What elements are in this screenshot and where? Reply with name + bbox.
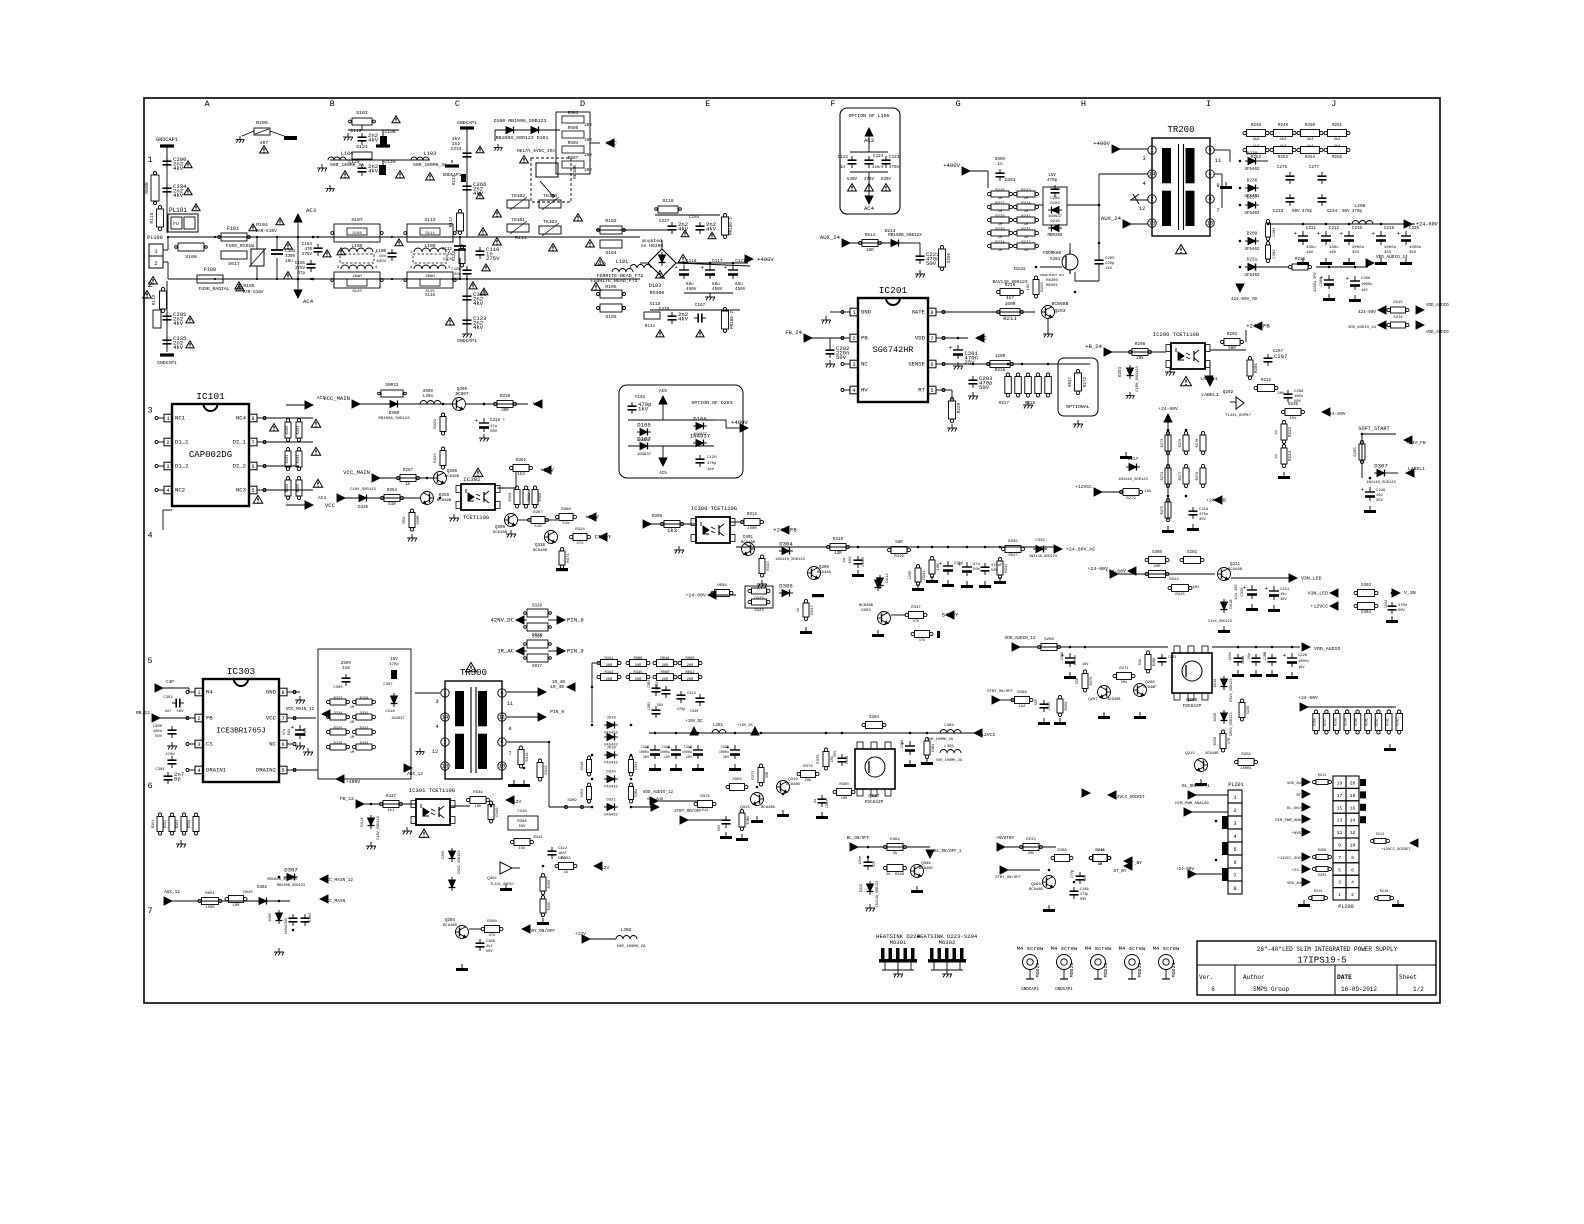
svg-text:+400V: +400V bbox=[757, 256, 774, 263]
svg-text:1u: 1u bbox=[843, 558, 847, 563]
svg-text:+24V_FB: +24V_FB bbox=[773, 527, 797, 534]
svg-text:1M: 1M bbox=[998, 236, 1003, 240]
svg-text:20R: 20R bbox=[687, 664, 694, 668]
svg-text:R226: R226 bbox=[995, 189, 1005, 193]
svg-text:C210: C210 bbox=[1352, 227, 1363, 231]
svg-text:C188: C188 bbox=[1080, 888, 1089, 892]
svg-text:50V: 50V bbox=[288, 728, 292, 735]
svg-text:220p: 220p bbox=[1105, 262, 1115, 266]
svg-text:S321: S321 bbox=[635, 762, 639, 771]
svg-text:R214: R214 bbox=[1314, 890, 1322, 894]
svg-text:Q215: Q215 bbox=[1185, 752, 1195, 756]
svg-text:RS306: RS306 bbox=[650, 290, 665, 296]
svg-text:+400V: +400V bbox=[731, 419, 748, 426]
svg-text:1n8: 1n8 bbox=[342, 667, 350, 671]
svg-text:20: 20 bbox=[1350, 781, 1356, 787]
svg-text:C324: C324 bbox=[641, 746, 649, 750]
svg-text:42NV_DC: 42NV_DC bbox=[491, 617, 515, 624]
svg-text:1M: 1M bbox=[350, 721, 354, 725]
svg-text:12: 12 bbox=[432, 749, 438, 755]
svg-text:1k3: 1k3 bbox=[667, 527, 677, 534]
svg-text:1N4148_SOD123: 1N4148_SOD123 bbox=[775, 558, 805, 562]
svg-text:S306: S306 bbox=[442, 851, 446, 860]
svg-text:50V: 50V bbox=[1398, 609, 1406, 613]
svg-text:BC848B: BC848B bbox=[859, 604, 874, 608]
svg-text:R104: R104 bbox=[256, 222, 268, 228]
svg-text:R314: R314 bbox=[1169, 578, 1179, 582]
svg-text:4kV: 4kV bbox=[473, 324, 484, 331]
svg-text:G203: G203 bbox=[1050, 202, 1060, 206]
svg-text:C249: C249 bbox=[1376, 489, 1386, 493]
svg-text:D320: D320 bbox=[358, 506, 369, 510]
svg-text:1M: 1M bbox=[350, 736, 354, 740]
svg-text:19: 19 bbox=[1337, 781, 1343, 787]
svg-text:D325: D325 bbox=[860, 884, 864, 892]
svg-text:+24V_FB: +24V_FB bbox=[1406, 440, 1426, 446]
svg-text:IC200 TCET1108: IC200 TCET1108 bbox=[1153, 331, 1199, 338]
svg-text:330nF: 330nF bbox=[872, 166, 885, 170]
svg-text:C331: C331 bbox=[901, 740, 905, 749]
svg-text:+12VCC: +12VCC bbox=[1310, 604, 1328, 610]
svg-text:+24-60V: +24-60V bbox=[1416, 222, 1439, 228]
svg-text:S215: S215 bbox=[1393, 301, 1403, 305]
svg-text:R209: R209 bbox=[1318, 849, 1326, 853]
svg-text:S304: S304 bbox=[1361, 611, 1372, 615]
svg-text:FUSE_RAD1W: FUSE_RAD1W bbox=[226, 243, 254, 249]
svg-text:1/2: 1/2 bbox=[1413, 986, 1424, 993]
svg-text:+12V: +12V bbox=[510, 799, 521, 805]
svg-text:3: 3 bbox=[852, 362, 855, 368]
svg-text:15R: 15R bbox=[866, 248, 874, 253]
svg-text:+19V_DC: +19V_DC bbox=[737, 724, 754, 728]
svg-text:10u: 10u bbox=[1280, 593, 1286, 597]
svg-text:+: + bbox=[1339, 230, 1343, 237]
svg-text:51R: 51R bbox=[388, 503, 396, 507]
svg-text:1k: 1k bbox=[796, 607, 801, 612]
svg-text:D209: D209 bbox=[1247, 232, 1258, 237]
svg-text:AUX_24: AUX_24 bbox=[820, 234, 841, 241]
svg-text:D320: D320 bbox=[606, 771, 616, 775]
svg-text:R220: R220 bbox=[1041, 282, 1045, 292]
svg-text:SOFT_START: SOFT_START bbox=[1358, 426, 1389, 432]
svg-text:R360: R360 bbox=[539, 493, 543, 502]
svg-text:C330: C330 bbox=[846, 756, 850, 765]
svg-text:R333: R333 bbox=[360, 742, 369, 746]
svg-text:+: + bbox=[1282, 652, 1286, 659]
svg-text:20R: 20R bbox=[1153, 565, 1161, 569]
svg-text:R362: R362 bbox=[516, 459, 527, 463]
svg-text:MOD20: MOD20 bbox=[1035, 963, 1041, 978]
svg-text:R225: R225 bbox=[1021, 228, 1031, 232]
svg-text:50V: 50V bbox=[1080, 898, 1087, 902]
svg-text:1: 1 bbox=[197, 690, 200, 696]
svg-text:C112: C112 bbox=[442, 248, 453, 252]
svg-text:B: B bbox=[330, 99, 335, 109]
svg-text:3: 3 bbox=[435, 699, 438, 705]
svg-text:4kV: 4kV bbox=[173, 344, 184, 351]
svg-text:FB: FB bbox=[861, 335, 868, 342]
svg-text:C212: C212 bbox=[1329, 227, 1340, 231]
svg-text:M4 screw: M4 screw bbox=[1051, 945, 1078, 952]
svg-text:20k: 20k bbox=[1136, 356, 1144, 361]
svg-text:R334: R334 bbox=[923, 570, 927, 580]
svg-text:R312: R312 bbox=[747, 513, 758, 517]
svg-text:L304: L304 bbox=[944, 724, 954, 728]
svg-text:D321: D321 bbox=[606, 799, 616, 803]
svg-text:TH103: TH103 bbox=[543, 219, 557, 225]
svg-text:JD18: JD18 bbox=[606, 717, 616, 721]
svg-text:10: 10 bbox=[1350, 843, 1356, 849]
svg-text:BL_ON/OFF: BL_ON/OFF bbox=[847, 836, 870, 841]
svg-text:C: C bbox=[455, 99, 460, 109]
svg-text:D238: D238 bbox=[1247, 152, 1258, 157]
svg-text:1N4937: 1N4937 bbox=[1048, 215, 1063, 219]
svg-text:C32B: C32B bbox=[721, 746, 729, 750]
svg-text:4: 4 bbox=[1233, 834, 1236, 840]
svg-text:BL_ON/OFF: BL_ON/OFF bbox=[1287, 806, 1309, 811]
svg-text:+12V: +12V bbox=[598, 865, 609, 871]
svg-text:16V: 16V bbox=[390, 658, 398, 662]
svg-text:1u: 1u bbox=[814, 799, 818, 803]
svg-text:C275: C275 bbox=[1277, 166, 1288, 170]
svg-text:G210: G210 bbox=[1050, 220, 1060, 224]
svg-text:1N4148_SOD123: 1N4148_SOD123 bbox=[876, 881, 880, 907]
svg-text:LABEL1: LABEL1 bbox=[1201, 392, 1219, 398]
svg-text:VCC_MAIN_12: VCC_MAIN_12 bbox=[286, 707, 315, 712]
svg-text:12: 12 bbox=[1139, 205, 1146, 212]
svg-text:R275: R275 bbox=[1161, 506, 1165, 515]
svg-text:D301: D301 bbox=[743, 536, 754, 540]
svg-text:+400V: +400V bbox=[346, 779, 360, 785]
svg-text:+NVSTBY: +NVSTBY bbox=[996, 836, 1015, 841]
svg-text:R325: R325 bbox=[334, 727, 343, 731]
svg-text:R318: R318 bbox=[833, 538, 844, 542]
svg-text:C120: C120 bbox=[707, 456, 717, 460]
svg-text:D214: D214 bbox=[885, 228, 896, 234]
svg-text:10k: 10k bbox=[474, 804, 482, 809]
svg-text:NC2: NC2 bbox=[175, 487, 185, 494]
svg-text:20R: 20R bbox=[584, 124, 592, 128]
svg-text:R255: R255 bbox=[1332, 156, 1343, 160]
svg-text:C338: C338 bbox=[659, 307, 670, 312]
svg-text:5: 5 bbox=[251, 488, 254, 494]
svg-text:R208: R208 bbox=[1135, 342, 1146, 347]
svg-text:470p: 470p bbox=[165, 753, 175, 757]
svg-text:56R: 56R bbox=[895, 541, 903, 545]
svg-text:R258: R258 bbox=[1214, 737, 1218, 746]
svg-text:TR300: TR300 bbox=[460, 668, 487, 678]
svg-text:R251: R251 bbox=[1332, 124, 1343, 128]
svg-text:FB_12: FB_12 bbox=[340, 796, 354, 802]
svg-text:C4P: C4P bbox=[166, 680, 174, 685]
svg-text:4n7: 4n7 bbox=[164, 710, 172, 714]
svg-text:4kV: 4kV bbox=[173, 165, 184, 172]
svg-text:C219: C219 bbox=[1199, 508, 1209, 512]
svg-text:C304: C304 bbox=[309, 913, 313, 922]
svg-text:S319: S319 bbox=[526, 752, 530, 762]
svg-text:R279: R279 bbox=[1126, 497, 1136, 501]
svg-text:4kV: 4kV bbox=[368, 137, 379, 144]
svg-text:R269: R269 bbox=[1065, 702, 1069, 711]
svg-text:S304: S304 bbox=[869, 716, 880, 720]
svg-text:R211: R211 bbox=[1003, 315, 1017, 322]
svg-text:2: 2 bbox=[1233, 808, 1236, 814]
svg-text:RB_12: RB_12 bbox=[136, 710, 150, 716]
svg-text:VCC_MAIN_12: VCC_MAIN_12 bbox=[324, 878, 353, 883]
svg-text:DRV2_SOD123: DRV2_SOD123 bbox=[1230, 712, 1234, 735]
svg-text:C122: C122 bbox=[838, 155, 849, 160]
svg-text:26"-40"LED SLIM INTEGRATED POW: 26"-40"LED SLIM INTEGRATED POWER SUPPLY bbox=[1257, 946, 1398, 953]
svg-text:R242: R242 bbox=[1396, 718, 1400, 726]
svg-text:C340: C340 bbox=[690, 710, 699, 714]
svg-text:1N4148_SOD123: 1N4148_SOD123 bbox=[1118, 478, 1148, 482]
svg-text:R339: R339 bbox=[473, 791, 483, 795]
svg-text:100n: 100n bbox=[859, 856, 863, 864]
svg-text:20R: 20R bbox=[606, 678, 613, 682]
svg-text:8: 8 bbox=[1351, 855, 1354, 861]
svg-text:+: + bbox=[700, 264, 704, 271]
svg-text:470: 470 bbox=[304, 248, 312, 252]
svg-text:RC848P: RC848P bbox=[1144, 686, 1157, 690]
svg-text:C18V_S0D123: C18V_S0D123 bbox=[350, 488, 376, 492]
svg-text:20R: 20R bbox=[662, 664, 669, 668]
svg-text:1M: 1M bbox=[1024, 223, 1029, 227]
svg-text:2: 2 bbox=[197, 716, 200, 722]
svg-text:R301: R301 bbox=[152, 820, 156, 828]
svg-text:BC807: BC807 bbox=[456, 392, 469, 397]
svg-text:R319: R319 bbox=[894, 555, 904, 559]
svg-text:ST_BY: ST_BY bbox=[1114, 869, 1127, 874]
svg-text:L102: L102 bbox=[594, 262, 606, 268]
svg-text:Q207: Q207 bbox=[1088, 698, 1098, 702]
svg-text:2: 2 bbox=[1351, 892, 1354, 898]
svg-text:DATE: DATE bbox=[1337, 974, 1352, 981]
svg-text:Q311: Q311 bbox=[1230, 563, 1241, 567]
svg-text:RT: RT bbox=[918, 387, 925, 394]
svg-text:RB160B_SOD123: RB160B_SOD123 bbox=[277, 884, 305, 888]
svg-text:8: 8 bbox=[281, 690, 284, 696]
svg-text:1k: 1k bbox=[405, 482, 411, 487]
svg-text:R337: R337 bbox=[386, 795, 397, 799]
svg-text:C337: C337 bbox=[659, 219, 670, 224]
svg-text:47k: 47k bbox=[918, 638, 926, 643]
svg-text:D100 RB1008_S0B123: D100 RB1008_S0B123 bbox=[494, 118, 547, 124]
svg-text:10R: 10R bbox=[841, 797, 849, 801]
svg-text:5: 5 bbox=[281, 768, 284, 774]
svg-text:470n: 470n bbox=[1199, 513, 1208, 517]
svg-text:47u: 47u bbox=[283, 729, 287, 735]
svg-text:LABEL1: LABEL1 bbox=[1408, 466, 1425, 472]
svg-text:OPTION OF L105: OPTION OF L105 bbox=[848, 113, 889, 119]
svg-text:C504: C504 bbox=[1385, 600, 1389, 609]
svg-text:AC4: AC4 bbox=[318, 495, 326, 501]
svg-text:D203: D203 bbox=[1005, 178, 1016, 183]
svg-text:FB_24: FB_24 bbox=[785, 329, 802, 336]
svg-text:R306: R306 bbox=[517, 820, 527, 824]
svg-text:E: E bbox=[705, 99, 710, 109]
svg-text:Q309: Q309 bbox=[495, 526, 506, 530]
svg-text:4kV: 4kV bbox=[473, 300, 484, 307]
svg-text:D106: D106 bbox=[693, 416, 706, 423]
svg-text:S617: S617 bbox=[228, 261, 240, 267]
svg-text:R101: R101 bbox=[286, 455, 290, 464]
svg-text:TH101: TH101 bbox=[511, 217, 525, 223]
svg-text:R233: R233 bbox=[1289, 426, 1293, 437]
svg-text:BC846B: BC846B bbox=[786, 783, 800, 787]
svg-text:+12VCC_SOCKET: +12VCC_SOCKET bbox=[1278, 857, 1309, 861]
svg-text:BC846B: BC846B bbox=[437, 499, 452, 503]
svg-text:C233: C233 bbox=[1273, 209, 1284, 214]
svg-text:GATE: GATE bbox=[912, 309, 926, 316]
svg-text:10k: 10k bbox=[1026, 283, 1031, 291]
svg-text:FDC642P: FDC642P bbox=[1183, 704, 1202, 709]
svg-text:D103: D103 bbox=[649, 283, 661, 289]
svg-text:C211: C211 bbox=[1306, 227, 1317, 231]
svg-text:+: + bbox=[938, 560, 942, 567]
svg-text:GNDCAP1: GNDCAP1 bbox=[1055, 988, 1073, 992]
svg-text:R253: R253 bbox=[1278, 156, 1289, 160]
svg-text:R370: R370 bbox=[817, 754, 821, 764]
svg-text:R305: R305 bbox=[652, 514, 663, 519]
svg-text:D2_2: D2_2 bbox=[233, 463, 246, 470]
svg-text:+24V_FB: +24V_FB bbox=[1246, 323, 1270, 330]
svg-text:1000u: 1000u bbox=[1361, 283, 1372, 287]
svg-text:1R_40: 1R_40 bbox=[552, 680, 566, 685]
svg-text:S316: S316 bbox=[581, 762, 585, 771]
svg-text:VAR-518V: VAR-518V bbox=[242, 290, 263, 295]
svg-text:20R: 20R bbox=[687, 678, 694, 682]
svg-text:50V: 50V bbox=[519, 825, 527, 829]
svg-text:1n: 1n bbox=[447, 253, 452, 257]
svg-text:BC846B: BC846B bbox=[445, 475, 460, 479]
svg-text:4: 4 bbox=[166, 488, 169, 494]
svg-text:S353: S353 bbox=[581, 789, 585, 798]
svg-text:50V: 50V bbox=[486, 950, 493, 954]
svg-text:Q205: Q205 bbox=[1186, 697, 1197, 703]
svg-text:5: 5 bbox=[930, 388, 933, 394]
svg-text:7: 7 bbox=[147, 906, 152, 916]
svg-text:11: 11 bbox=[1215, 157, 1222, 164]
svg-text:10n: 10n bbox=[379, 255, 387, 259]
svg-text:+: + bbox=[957, 561, 961, 568]
svg-text:R249: R249 bbox=[1278, 124, 1289, 128]
svg-text:C300: C300 bbox=[153, 725, 163, 729]
svg-text:R051: R051 bbox=[205, 892, 215, 896]
svg-text:S229: S229 bbox=[1247, 706, 1251, 715]
svg-text:C226: C226 bbox=[1298, 654, 1308, 658]
svg-text:PIN_9: PIN_9 bbox=[567, 648, 584, 655]
svg-text:20R: 20R bbox=[635, 678, 642, 682]
svg-text:GND: GND bbox=[861, 309, 872, 316]
svg-text:S312: S312 bbox=[545, 765, 549, 775]
svg-text:C124: C124 bbox=[873, 154, 884, 159]
svg-text:Q308: Q308 bbox=[921, 862, 931, 866]
svg-text:VCC_MAIN: VCC_MAIN bbox=[343, 469, 370, 476]
svg-text:SMPS Group: SMPS Group bbox=[1253, 986, 1289, 993]
svg-text:20R: 20R bbox=[584, 154, 592, 158]
svg-text:13: 13 bbox=[1337, 818, 1343, 824]
svg-text:4kV: 4kV bbox=[368, 168, 379, 175]
svg-text:+24V: +24V bbox=[585, 514, 599, 521]
svg-text:277p: 277p bbox=[1071, 870, 1075, 878]
svg-text:R06B: R06B bbox=[633, 657, 643, 661]
svg-text:RELAY_5VDC_10A: RELAY_5VDC_10A bbox=[517, 148, 555, 154]
svg-text:1M: 1M bbox=[998, 223, 1003, 227]
svg-text:6: 6 bbox=[281, 742, 284, 748]
svg-text:C204: C204 bbox=[1050, 197, 1060, 201]
svg-text:6: 6 bbox=[1233, 860, 1236, 866]
svg-text:R257: R257 bbox=[403, 469, 414, 473]
svg-text:470n: 470n bbox=[889, 166, 900, 170]
svg-text:1kV: 1kV bbox=[1105, 266, 1113, 271]
svg-text:1M: 1M bbox=[998, 210, 1003, 214]
svg-text:D304: D304 bbox=[779, 541, 793, 548]
svg-text:+: + bbox=[948, 344, 952, 351]
svg-text:6: 6 bbox=[1208, 171, 1211, 178]
svg-text:450V: 450V bbox=[712, 287, 723, 292]
svg-text:R276: R276 bbox=[1179, 439, 1183, 448]
svg-text:L301: L301 bbox=[713, 724, 724, 728]
svg-text:35V: 35V bbox=[1199, 518, 1207, 522]
svg-text:R238: R238 bbox=[995, 215, 1005, 219]
svg-text:50V: 50V bbox=[657, 704, 664, 708]
svg-text:16V: 16V bbox=[664, 756, 671, 760]
svg-text:R330: R330 bbox=[500, 394, 511, 399]
svg-text:PIN_9: PIN_9 bbox=[567, 617, 584, 624]
svg-text:D8V2_SOD123: D8V2_SOD123 bbox=[458, 850, 462, 873]
svg-text:R201: R201 bbox=[1255, 362, 1259, 373]
svg-text:6: 6 bbox=[251, 464, 254, 470]
svg-text:FB: FB bbox=[206, 715, 213, 722]
svg-text:S4_DY: S4_DY bbox=[942, 612, 959, 619]
svg-text:6: 6 bbox=[930, 362, 933, 368]
svg-text:1k2: 1k2 bbox=[1019, 704, 1027, 709]
svg-text:D237: D237 bbox=[1247, 196, 1258, 201]
svg-text:C3R2: C3R2 bbox=[648, 702, 652, 710]
svg-text:Author: Author bbox=[1243, 974, 1265, 981]
svg-text:6p: 6p bbox=[174, 776, 181, 783]
svg-text:UF5402: UF5402 bbox=[1244, 274, 1260, 278]
svg-text:R133: R133 bbox=[453, 174, 457, 185]
svg-text:J: J bbox=[1331, 99, 1336, 109]
svg-text:Q304: Q304 bbox=[445, 919, 456, 923]
svg-text:D324: D324 bbox=[334, 712, 343, 716]
svg-text:+24-60V: +24-60V bbox=[1298, 695, 1318, 701]
svg-text:VCC_MAIN: VCC_MAIN bbox=[324, 899, 345, 904]
svg-text:10: 10 bbox=[1207, 220, 1214, 227]
svg-text:1k: 1k bbox=[564, 870, 569, 875]
svg-text:M4 screw: M4 screw bbox=[1085, 945, 1112, 952]
svg-text:5: 5 bbox=[1208, 147, 1211, 154]
svg-text:NC: NC bbox=[269, 741, 276, 748]
svg-text:C334: C334 bbox=[451, 146, 462, 152]
svg-text:R341: R341 bbox=[604, 657, 614, 661]
svg-text:4k7: 4k7 bbox=[1006, 296, 1014, 301]
svg-text:TL431_SOP8?: TL431_SOP8? bbox=[490, 883, 514, 887]
svg-text:VDD_AUDIO_24: VDD_AUDIO_24 bbox=[1376, 255, 1408, 260]
svg-text:4: 4 bbox=[1351, 880, 1354, 886]
svg-text:R123: R123 bbox=[453, 250, 457, 261]
svg-text:UF5402: UF5402 bbox=[1244, 212, 1260, 216]
svg-text:R329: R329 bbox=[434, 419, 438, 429]
svg-text:50R_100MH_2A: 50R_100MH_2A bbox=[617, 945, 646, 949]
svg-text:D306: D306 bbox=[779, 583, 792, 590]
svg-text:FERRITE_BEAD_FT2: FERRITE_BEAD_FT2 bbox=[591, 278, 638, 284]
svg-text:8: 8 bbox=[1216, 182, 1219, 189]
svg-text:R503: R503 bbox=[568, 111, 579, 116]
svg-text:1M: 1M bbox=[998, 249, 1003, 253]
svg-text:5: 5 bbox=[1338, 867, 1341, 873]
